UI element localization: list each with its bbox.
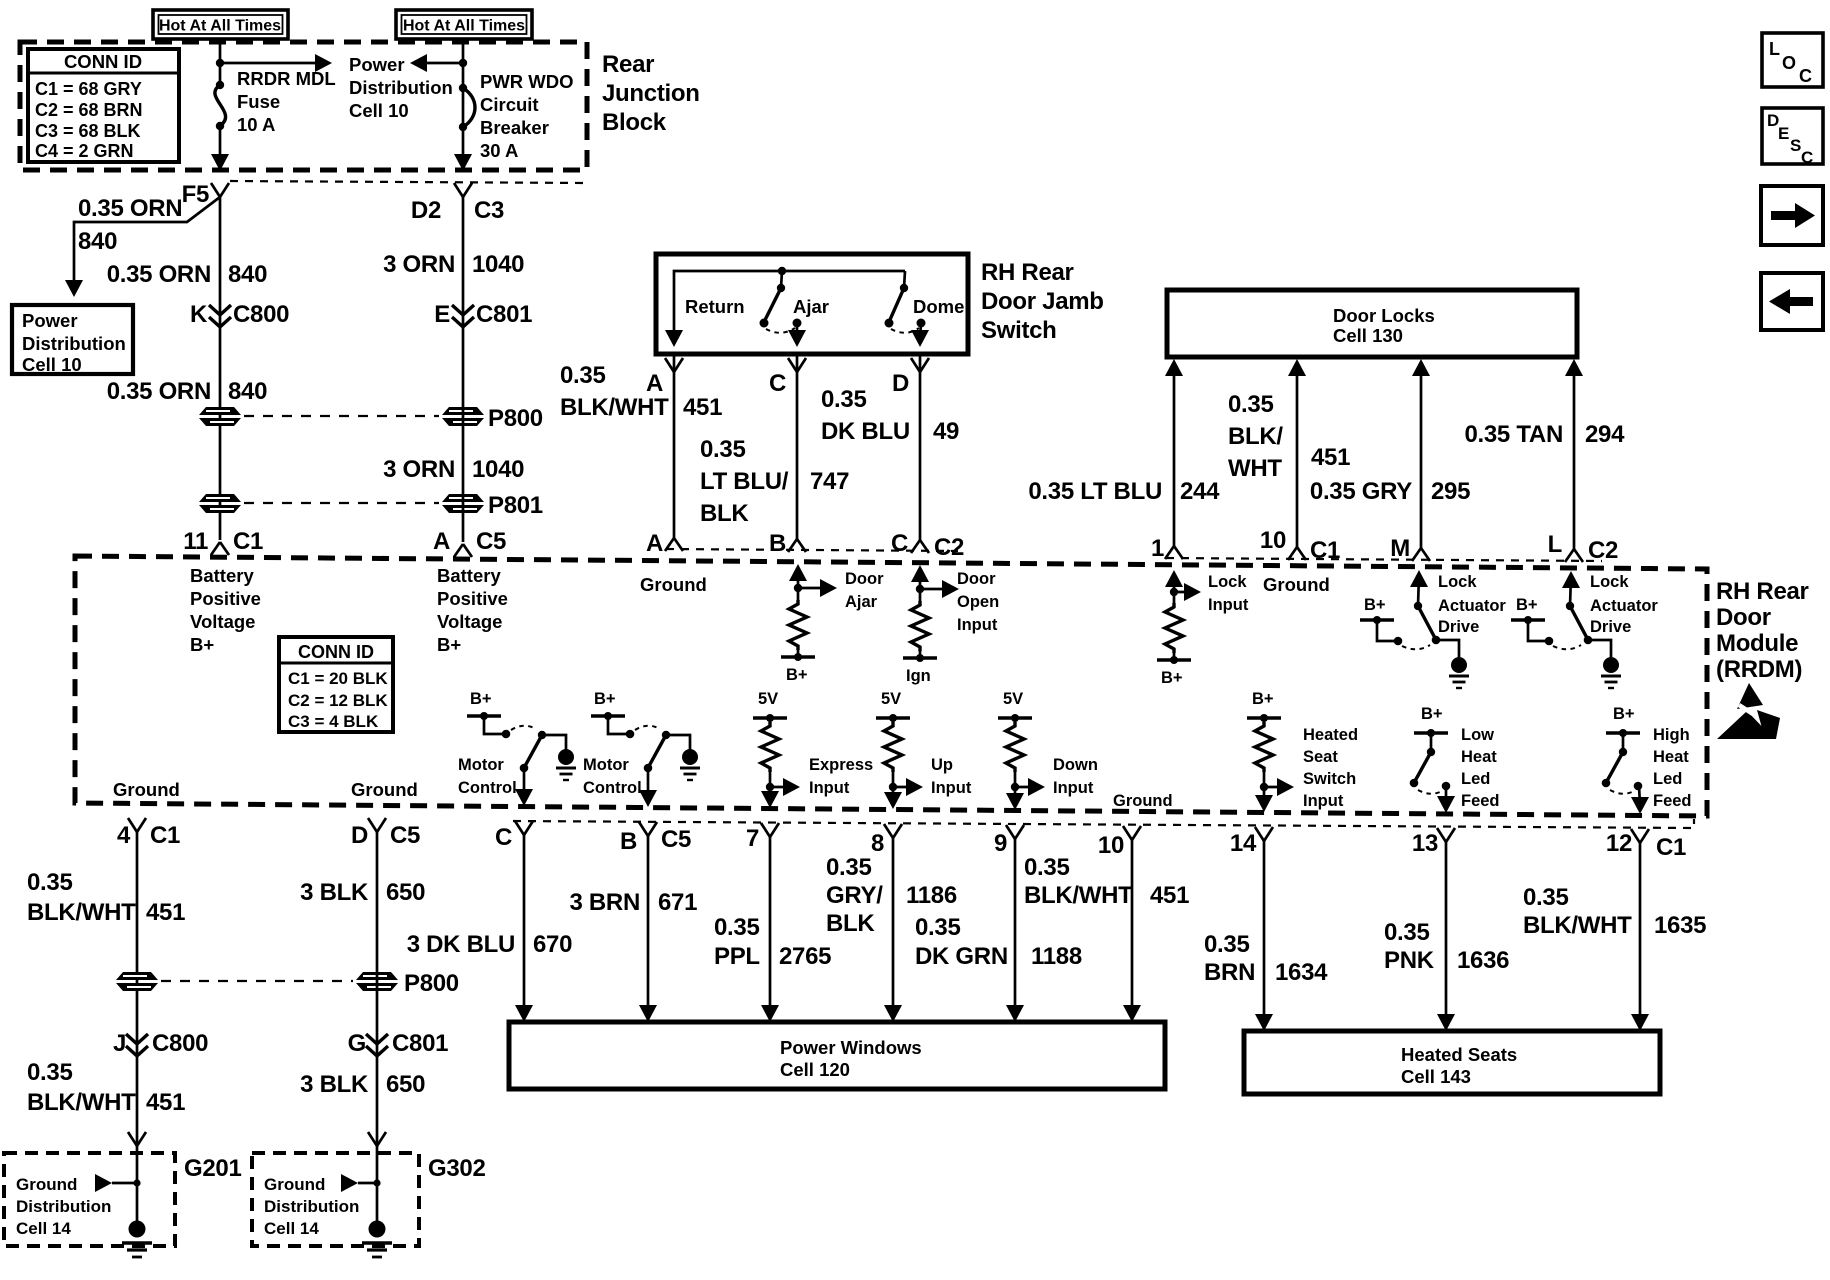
svg-text:0.35 ORN: 0.35 ORN — [78, 195, 182, 222]
svg-text:G302: G302 — [428, 1155, 486, 1182]
svg-text:8: 8 — [871, 830, 884, 857]
svg-text:0.35: 0.35 — [826, 854, 872, 881]
label 0.35 BLK/WHT 1635 — [1523, 884, 1706, 939]
svg-text:Actuator: Actuator — [1438, 597, 1506, 615]
svg-text:30 A: 30 A — [480, 140, 518, 161]
svg-text:Lock: Lock — [1438, 573, 1477, 591]
wire M to door locks — [1412, 359, 1430, 548]
svg-text:BLK/: BLK/ — [1228, 423, 1283, 450]
svg-text:C1: C1 — [233, 528, 263, 555]
ground G302 — [362, 1221, 392, 1258]
lock actuator L B+ feed — [1511, 596, 1581, 649]
svg-text:Distribution: Distribution — [349, 77, 453, 98]
connector 10 — [1098, 826, 1141, 859]
wire jamb switch common — [674, 271, 905, 340]
arrow to Power Distribution Cell 10 — [220, 54, 332, 72]
svg-text:Express: Express — [809, 756, 873, 774]
svg-text:G: G — [348, 1030, 366, 1057]
label 3 BRN 671 — [569, 889, 697, 916]
connector C below jamb box — [769, 358, 806, 397]
connector face dashed line at junction block — [230, 181, 585, 183]
svg-text:C: C — [1801, 148, 1813, 167]
svg-text:C2: C2 — [934, 534, 964, 561]
svg-text:PWR WDO: PWR WDO — [480, 71, 574, 92]
svg-text:F5: F5 — [182, 181, 209, 208]
svg-text:1: 1 — [1151, 535, 1164, 562]
svg-text:PNK: PNK — [1384, 947, 1435, 974]
nav box arrow left — [1761, 273, 1823, 330]
svg-text:C5: C5 — [476, 528, 506, 555]
svg-text:0.35 ORN: 0.35 ORN — [107, 378, 211, 405]
svg-text:0.35 ORN: 0.35 ORN — [107, 261, 211, 288]
svg-text:Power: Power — [349, 54, 405, 75]
switch ajar — [760, 267, 807, 347]
svg-text:Ground: Ground — [1263, 574, 1330, 595]
svg-text:B+: B+ — [1161, 669, 1183, 687]
svg-text:650: 650 — [386, 1071, 425, 1098]
svg-text:B+: B+ — [1421, 705, 1443, 723]
svg-text:Cell 10: Cell 10 — [22, 354, 82, 375]
svg-text:C1 = 68 GRY: C1 = 68 GRY — [35, 79, 142, 99]
svg-text:Feed: Feed — [1461, 792, 1500, 810]
ground G201 — [122, 1221, 152, 1258]
svg-text:Door: Door — [1716, 604, 1771, 631]
connector 1 into module — [1151, 535, 1183, 562]
label Motor Control 1 — [458, 756, 517, 797]
svg-text:Breaker: Breaker — [480, 117, 549, 138]
svg-text:Drive: Drive — [1590, 618, 1631, 636]
svg-text:Voltage: Voltage — [437, 611, 502, 632]
svg-text:P801: P801 — [488, 492, 543, 519]
connector D C5 — [351, 818, 420, 849]
svg-text:Ground: Ground — [1113, 792, 1173, 810]
connector 4 C1 — [117, 818, 180, 849]
svg-text:0.35: 0.35 — [821, 386, 867, 413]
connector D below jamb box — [892, 358, 929, 397]
svg-text:E: E — [434, 301, 450, 328]
dashed link P800 — [244, 415, 439, 417]
svg-text:Module: Module — [1716, 630, 1798, 657]
svg-text:B: B — [769, 530, 786, 557]
svg-text:Door: Door — [957, 570, 996, 588]
connector B into module — [769, 530, 806, 557]
label Express Input — [809, 756, 873, 797]
connector G C801 — [348, 1030, 449, 1057]
RH rear door jamb switch box — [656, 254, 968, 354]
svg-text:Feed: Feed — [1653, 792, 1692, 810]
svg-text:RRDR MDL: RRDR MDL — [237, 68, 336, 89]
label Battery Positive Voltage B+ (right) — [437, 565, 508, 655]
connector K C800 — [190, 301, 289, 328]
circuit breaker PWR WDO 30A — [459, 84, 475, 131]
svg-text:1040: 1040 — [472, 251, 524, 278]
svg-text:BLK/WHT: BLK/WHT — [27, 1089, 136, 1116]
svg-text:Door Locks: Door Locks — [1333, 305, 1435, 326]
in-line connector P801 right half — [442, 492, 543, 519]
svg-text:B: B — [620, 828, 637, 855]
label 0.35 TAN 294 — [1464, 421, 1625, 448]
svg-text:Cell 143: Cell 143 — [1401, 1066, 1471, 1087]
svg-text:K: K — [190, 301, 208, 328]
svg-text:3 BLK: 3 BLK — [300, 1071, 369, 1098]
svg-text:DK GRN: DK GRN — [915, 943, 1008, 970]
svg-text:Ground: Ground — [640, 574, 707, 595]
svg-text:11: 11 — [183, 528, 208, 555]
label 3 DK BLU 670 — [407, 931, 572, 958]
svg-text:C: C — [891, 530, 908, 557]
label Power Distribution Cell 10 — [349, 54, 453, 121]
svg-text:10 A: 10 A — [237, 114, 275, 135]
svg-text:1040: 1040 — [472, 456, 524, 483]
svg-text:B+: B+ — [1252, 690, 1274, 708]
svg-text:C: C — [1799, 66, 1812, 86]
svg-text:4: 4 — [117, 822, 131, 849]
rear junction block dashed box — [20, 42, 587, 170]
svg-text:670: 670 — [533, 931, 572, 958]
svg-text:Circuit: Circuit — [480, 94, 539, 115]
svg-text:C: C — [769, 370, 786, 397]
svg-text:C800: C800 — [152, 1030, 208, 1057]
conn id table 2 — [279, 637, 393, 732]
svg-text:P800: P800 — [404, 970, 459, 997]
svg-text:Cell 14: Cell 14 — [264, 1219, 319, 1238]
connector A C5 into module — [433, 528, 506, 557]
svg-text:Power Windows: Power Windows — [780, 1037, 922, 1058]
svg-text:5V: 5V — [1003, 690, 1023, 708]
svg-text:Junction: Junction — [602, 80, 700, 107]
label RH Rear Door Jamb Switch — [981, 259, 1104, 344]
svg-text:DK BLU: DK BLU — [821, 418, 910, 445]
connector 8 — [871, 824, 902, 857]
heated seat switch input divider — [1247, 690, 1294, 812]
express input divider — [753, 690, 800, 808]
svg-text:14: 14 — [1230, 830, 1257, 857]
svg-text:0.35: 0.35 — [1384, 919, 1430, 946]
svg-text:0.35 TAN: 0.35 TAN — [1464, 421, 1563, 448]
svg-text:Ground: Ground — [351, 779, 418, 800]
module top connector face dashed line 1-C2 — [1166, 558, 1602, 561]
svg-text:B+: B+ — [1516, 596, 1538, 614]
svg-text:B+: B+ — [1613, 705, 1635, 723]
svg-text:Input: Input — [1053, 779, 1094, 797]
connector 14 — [1230, 827, 1273, 857]
label Heated Seat Switch Input — [1303, 726, 1358, 810]
svg-text:5V: 5V — [881, 690, 901, 708]
label Rear Junction Block — [602, 51, 700, 136]
wire 13 0.35 PNK 1636 — [1437, 842, 1455, 1031]
svg-text:1186: 1186 — [906, 882, 957, 909]
connector F5 — [182, 181, 229, 208]
svg-text:B+: B+ — [437, 634, 461, 655]
label 0.35 GRY 295 — [1310, 478, 1470, 505]
svg-text:Drive: Drive — [1438, 618, 1479, 636]
svg-text:840: 840 — [228, 378, 267, 405]
svg-text:0.35: 0.35 — [1228, 391, 1274, 418]
svg-text:CONN ID: CONN ID — [298, 642, 374, 662]
wire 3 ORN 1040 from D2 down — [462, 197, 465, 542]
label 3 BLK 650 — [300, 879, 425, 906]
svg-text:C5: C5 — [390, 822, 420, 849]
svg-text:Heat: Heat — [1653, 748, 1689, 766]
svg-text:0.35 LT BLU: 0.35 LT BLU — [1028, 478, 1162, 505]
svg-text:Open: Open — [957, 593, 999, 611]
svg-text:Control: Control — [458, 779, 517, 797]
label High Heat Led Feed — [1653, 726, 1692, 810]
svg-text:Ground: Ground — [113, 779, 180, 800]
svg-text:Battery: Battery — [190, 565, 254, 586]
svg-text:0.35: 0.35 — [1523, 884, 1569, 911]
up input divider — [876, 690, 923, 809]
svg-text:C5: C5 — [661, 826, 691, 853]
svg-text:C801: C801 — [392, 1030, 448, 1057]
wire C 0.35 LT BLU/BLK 747 — [796, 354, 799, 539]
svg-text:C4 = 2 GRN: C4 = 2 GRN — [35, 141, 134, 161]
bottom connector face dashed line — [513, 819, 1694, 828]
wire L to door locks — [1565, 359, 1583, 549]
wire 4 C1 0.35 BLK/WHT 451 — [136, 832, 139, 1224]
wire 10 0.35 BLK/WHT 451 — [1123, 840, 1141, 1022]
svg-text:0.35 GRY: 0.35 GRY — [1310, 478, 1412, 505]
svg-text:10: 10 — [1098, 832, 1124, 859]
svg-text:451: 451 — [683, 394, 722, 421]
wire D C5 3 BLK 650 — [376, 832, 379, 1224]
svg-text:3 ORN: 3 ORN — [383, 456, 455, 483]
svg-text:C1: C1 — [150, 822, 180, 849]
label 0.35 BRN 1634 — [1204, 931, 1328, 986]
nav box arrow right — [1761, 186, 1823, 245]
svg-text:Led: Led — [1653, 770, 1682, 788]
label Battery Positive Voltage B+ (left) — [190, 565, 261, 655]
connector M into module — [1390, 535, 1430, 562]
high heat led feed switch — [1602, 705, 1649, 814]
dashed link P801 — [244, 502, 439, 504]
svg-text:E: E — [1778, 124, 1789, 143]
svg-text:Voltage: Voltage — [190, 611, 255, 632]
wire 14 0.35 BRN 1634 — [1255, 841, 1273, 1031]
svg-text:D: D — [351, 822, 368, 849]
label 0.35 ORN 840 — [107, 378, 267, 405]
label 0.35 LT BLU 244 — [1028, 478, 1220, 505]
svg-text:Heated: Heated — [1303, 726, 1358, 744]
svg-text:Input: Input — [809, 779, 850, 797]
svg-text:Down: Down — [1053, 756, 1098, 774]
svg-text:C801: C801 — [476, 301, 532, 328]
motor control switch 2 — [591, 690, 700, 807]
svg-text:650: 650 — [386, 879, 425, 906]
svg-text:Actuator: Actuator — [1590, 597, 1658, 615]
hot at all times box 1 — [153, 10, 288, 39]
svg-text:Hot At All Times: Hot At All Times — [403, 18, 525, 35]
label Lock Input — [1208, 573, 1249, 614]
svg-text:C2 = 12 BLK: C2 = 12 BLK — [288, 691, 388, 710]
module top connector face dashed line A-C2 — [666, 549, 958, 551]
connector L C2 into module — [1548, 531, 1618, 564]
arrow return to A — [665, 330, 683, 347]
svg-text:Motor: Motor — [583, 756, 629, 774]
svg-text:451: 451 — [1150, 882, 1189, 909]
svg-text:M: M — [1390, 535, 1410, 562]
label 0.35 PPL 2765 — [714, 914, 831, 970]
connector into G302 — [368, 1132, 386, 1146]
label Down Input — [1053, 756, 1098, 797]
svg-text:Door Jamb: Door Jamb — [981, 288, 1104, 315]
heated seats cell 143 box — [1244, 1031, 1660, 1094]
svg-text:451: 451 — [1311, 444, 1350, 471]
wire B 3 BRN 671 — [639, 836, 657, 1022]
wire A 0.35 BLK/WHT 451 — [673, 354, 676, 538]
wire D 0.35 DK BLU 49 — [919, 354, 922, 540]
svg-text:B+: B+ — [786, 666, 808, 684]
svg-text:Led: Led — [1461, 770, 1490, 788]
svg-text:Positive: Positive — [437, 588, 508, 609]
svg-text:3 BRN: 3 BRN — [569, 889, 640, 916]
svg-text:12: 12 — [1606, 830, 1632, 857]
connector 9 — [994, 825, 1024, 857]
svg-text:WHT: WHT — [1228, 455, 1282, 482]
power windows cell 120 box — [509, 1022, 1165, 1089]
wire fuse to F5 — [211, 126, 229, 171]
connector A into module — [646, 530, 683, 557]
label Motor Control 2 — [583, 756, 642, 797]
svg-text:451: 451 — [146, 1089, 185, 1116]
label 0.35 ORN 840 — [107, 261, 267, 288]
label RH Rear Door Module (RRDM) — [1716, 578, 1809, 683]
down input divider — [998, 690, 1045, 810]
label 0.35 DK GRN 1188 — [915, 914, 1082, 970]
wire 10 to door locks — [1288, 359, 1306, 547]
svg-text:Rear: Rear — [602, 51, 654, 78]
connector into G201 — [128, 1132, 146, 1146]
label RRDR MDL Fuse 10A — [237, 68, 336, 135]
svg-text:Input: Input — [931, 779, 972, 797]
label 0.35 BLK/WHT 451 — [1024, 854, 1189, 909]
label 0.35 GRY/BLK 1186 — [826, 854, 957, 937]
nav box DESC — [1762, 108, 1823, 167]
wire 8 0.35 GRY/BLK 1186 — [884, 838, 902, 1022]
svg-text:Ign: Ign — [906, 667, 931, 685]
svg-text:D2: D2 — [411, 197, 441, 224]
connector C — [495, 821, 533, 851]
svg-text:Lock: Lock — [1208, 573, 1247, 591]
in-line connector P800 left (bottom) — [116, 972, 158, 991]
connector B C5 — [620, 822, 691, 855]
connector 10 C1 into module — [1260, 527, 1340, 564]
motor control switch 1 — [467, 690, 576, 806]
label 0.35 BLK/WHT 451 — [1228, 391, 1350, 482]
svg-text:Positive: Positive — [190, 588, 261, 609]
svg-text:G201: G201 — [184, 1155, 242, 1182]
svg-text:RH Rear: RH Rear — [981, 259, 1074, 286]
connector 12 C1 — [1606, 829, 1686, 861]
wire hot feed 2 — [459, 42, 467, 88]
svg-text:7: 7 — [746, 825, 759, 852]
svg-text:B+: B+ — [190, 634, 214, 655]
svg-text:Ajar: Ajar — [793, 296, 829, 317]
svg-text:Motor: Motor — [458, 756, 504, 774]
dashed link P800 bottom — [161, 980, 353, 982]
svg-text:C1: C1 — [1656, 834, 1686, 861]
svg-text:L: L — [1548, 531, 1562, 558]
svg-text:C3 = 68 BLK: C3 = 68 BLK — [35, 121, 141, 141]
svg-text:BLK/WHT: BLK/WHT — [1024, 882, 1133, 909]
svg-text:BRN: BRN — [1204, 959, 1255, 986]
label Up Input — [931, 756, 972, 797]
wire breaker to D2 — [454, 127, 472, 171]
svg-text:Power: Power — [22, 310, 78, 331]
svg-text:1188: 1188 — [1031, 943, 1082, 970]
svg-text:C: C — [495, 824, 512, 851]
svg-text:B+: B+ — [594, 690, 616, 708]
svg-text:Heated Seats: Heated Seats — [1401, 1044, 1517, 1065]
svg-text:3 ORN: 3 ORN — [383, 251, 455, 278]
label 3 ORN 1040 — [383, 456, 524, 483]
svg-text:Fuse: Fuse — [237, 91, 280, 112]
svg-text:244: 244 — [1180, 478, 1220, 505]
svg-text:C3: C3 — [474, 197, 504, 224]
svg-text:L: L — [1769, 39, 1780, 59]
svg-text:C800: C800 — [233, 301, 289, 328]
svg-text:RH Rear: RH Rear — [1716, 578, 1809, 605]
svg-text:0.35: 0.35 — [560, 362, 606, 389]
svg-text:Door: Door — [845, 570, 884, 588]
svg-text:0.35: 0.35 — [700, 436, 746, 463]
svg-text:B+: B+ — [1364, 596, 1386, 614]
svg-text:D: D — [892, 370, 909, 397]
connector 11 C1 into module — [183, 528, 263, 555]
svg-text:O: O — [1782, 53, 1796, 73]
label PWR WDO Circuit Breaker 30A — [480, 71, 574, 161]
svg-text:Cell 130: Cell 130 — [1333, 325, 1403, 346]
svg-text:5V: 5V — [758, 690, 778, 708]
svg-text:BLK/WHT: BLK/WHT — [27, 899, 136, 926]
arrow from breaker wire to Power Distribution — [410, 54, 463, 72]
RH rear door module RRDM dashed border — [75, 556, 1707, 816]
wire 0.35 ORN 840 from F5 down — [219, 197, 222, 540]
svg-text:Ground: Ground — [264, 1175, 325, 1194]
svg-text:Ajar: Ajar — [845, 593, 878, 611]
lock actuator drive switch M — [1410, 570, 1469, 688]
svg-text:Switch: Switch — [1303, 770, 1356, 788]
in-line connector P800 right (bottom) — [356, 970, 459, 997]
svg-text:1634: 1634 — [1275, 959, 1328, 986]
svg-text:Distribution: Distribution — [264, 1197, 359, 1216]
label 0.35 BLK/WHT 451 — [27, 869, 185, 926]
svg-text:J: J — [113, 1030, 126, 1057]
svg-text:0.35: 0.35 — [1204, 931, 1250, 958]
lock actuator drive switch L — [1562, 571, 1621, 688]
connector D2 C3 — [411, 183, 504, 224]
connector C C2 into module — [891, 530, 964, 561]
svg-text:BLK/WHT: BLK/WHT — [1523, 912, 1632, 939]
svg-text:Cell 14: Cell 14 — [16, 1219, 71, 1238]
svg-text:B+: B+ — [470, 690, 492, 708]
svg-text:840: 840 — [78, 228, 117, 255]
svg-text:CONN ID: CONN ID — [64, 51, 142, 72]
connector A below jamb box — [646, 358, 683, 397]
label Low Heat Led Feed — [1461, 726, 1500, 810]
in-line connector P801 left half — [199, 494, 241, 513]
wire 1 to door locks — [1165, 359, 1183, 546]
svg-text:High: High — [1653, 726, 1690, 744]
svg-text:840: 840 — [228, 261, 267, 288]
door open input resistor — [903, 565, 959, 662]
svg-text:1635: 1635 — [1654, 912, 1706, 939]
svg-text:A: A — [646, 530, 663, 557]
svg-text:GRY/: GRY/ — [826, 882, 883, 909]
label Door Open Input — [957, 570, 999, 634]
svg-text:Cell 120: Cell 120 — [780, 1059, 850, 1080]
label Door Ajar — [845, 570, 884, 611]
